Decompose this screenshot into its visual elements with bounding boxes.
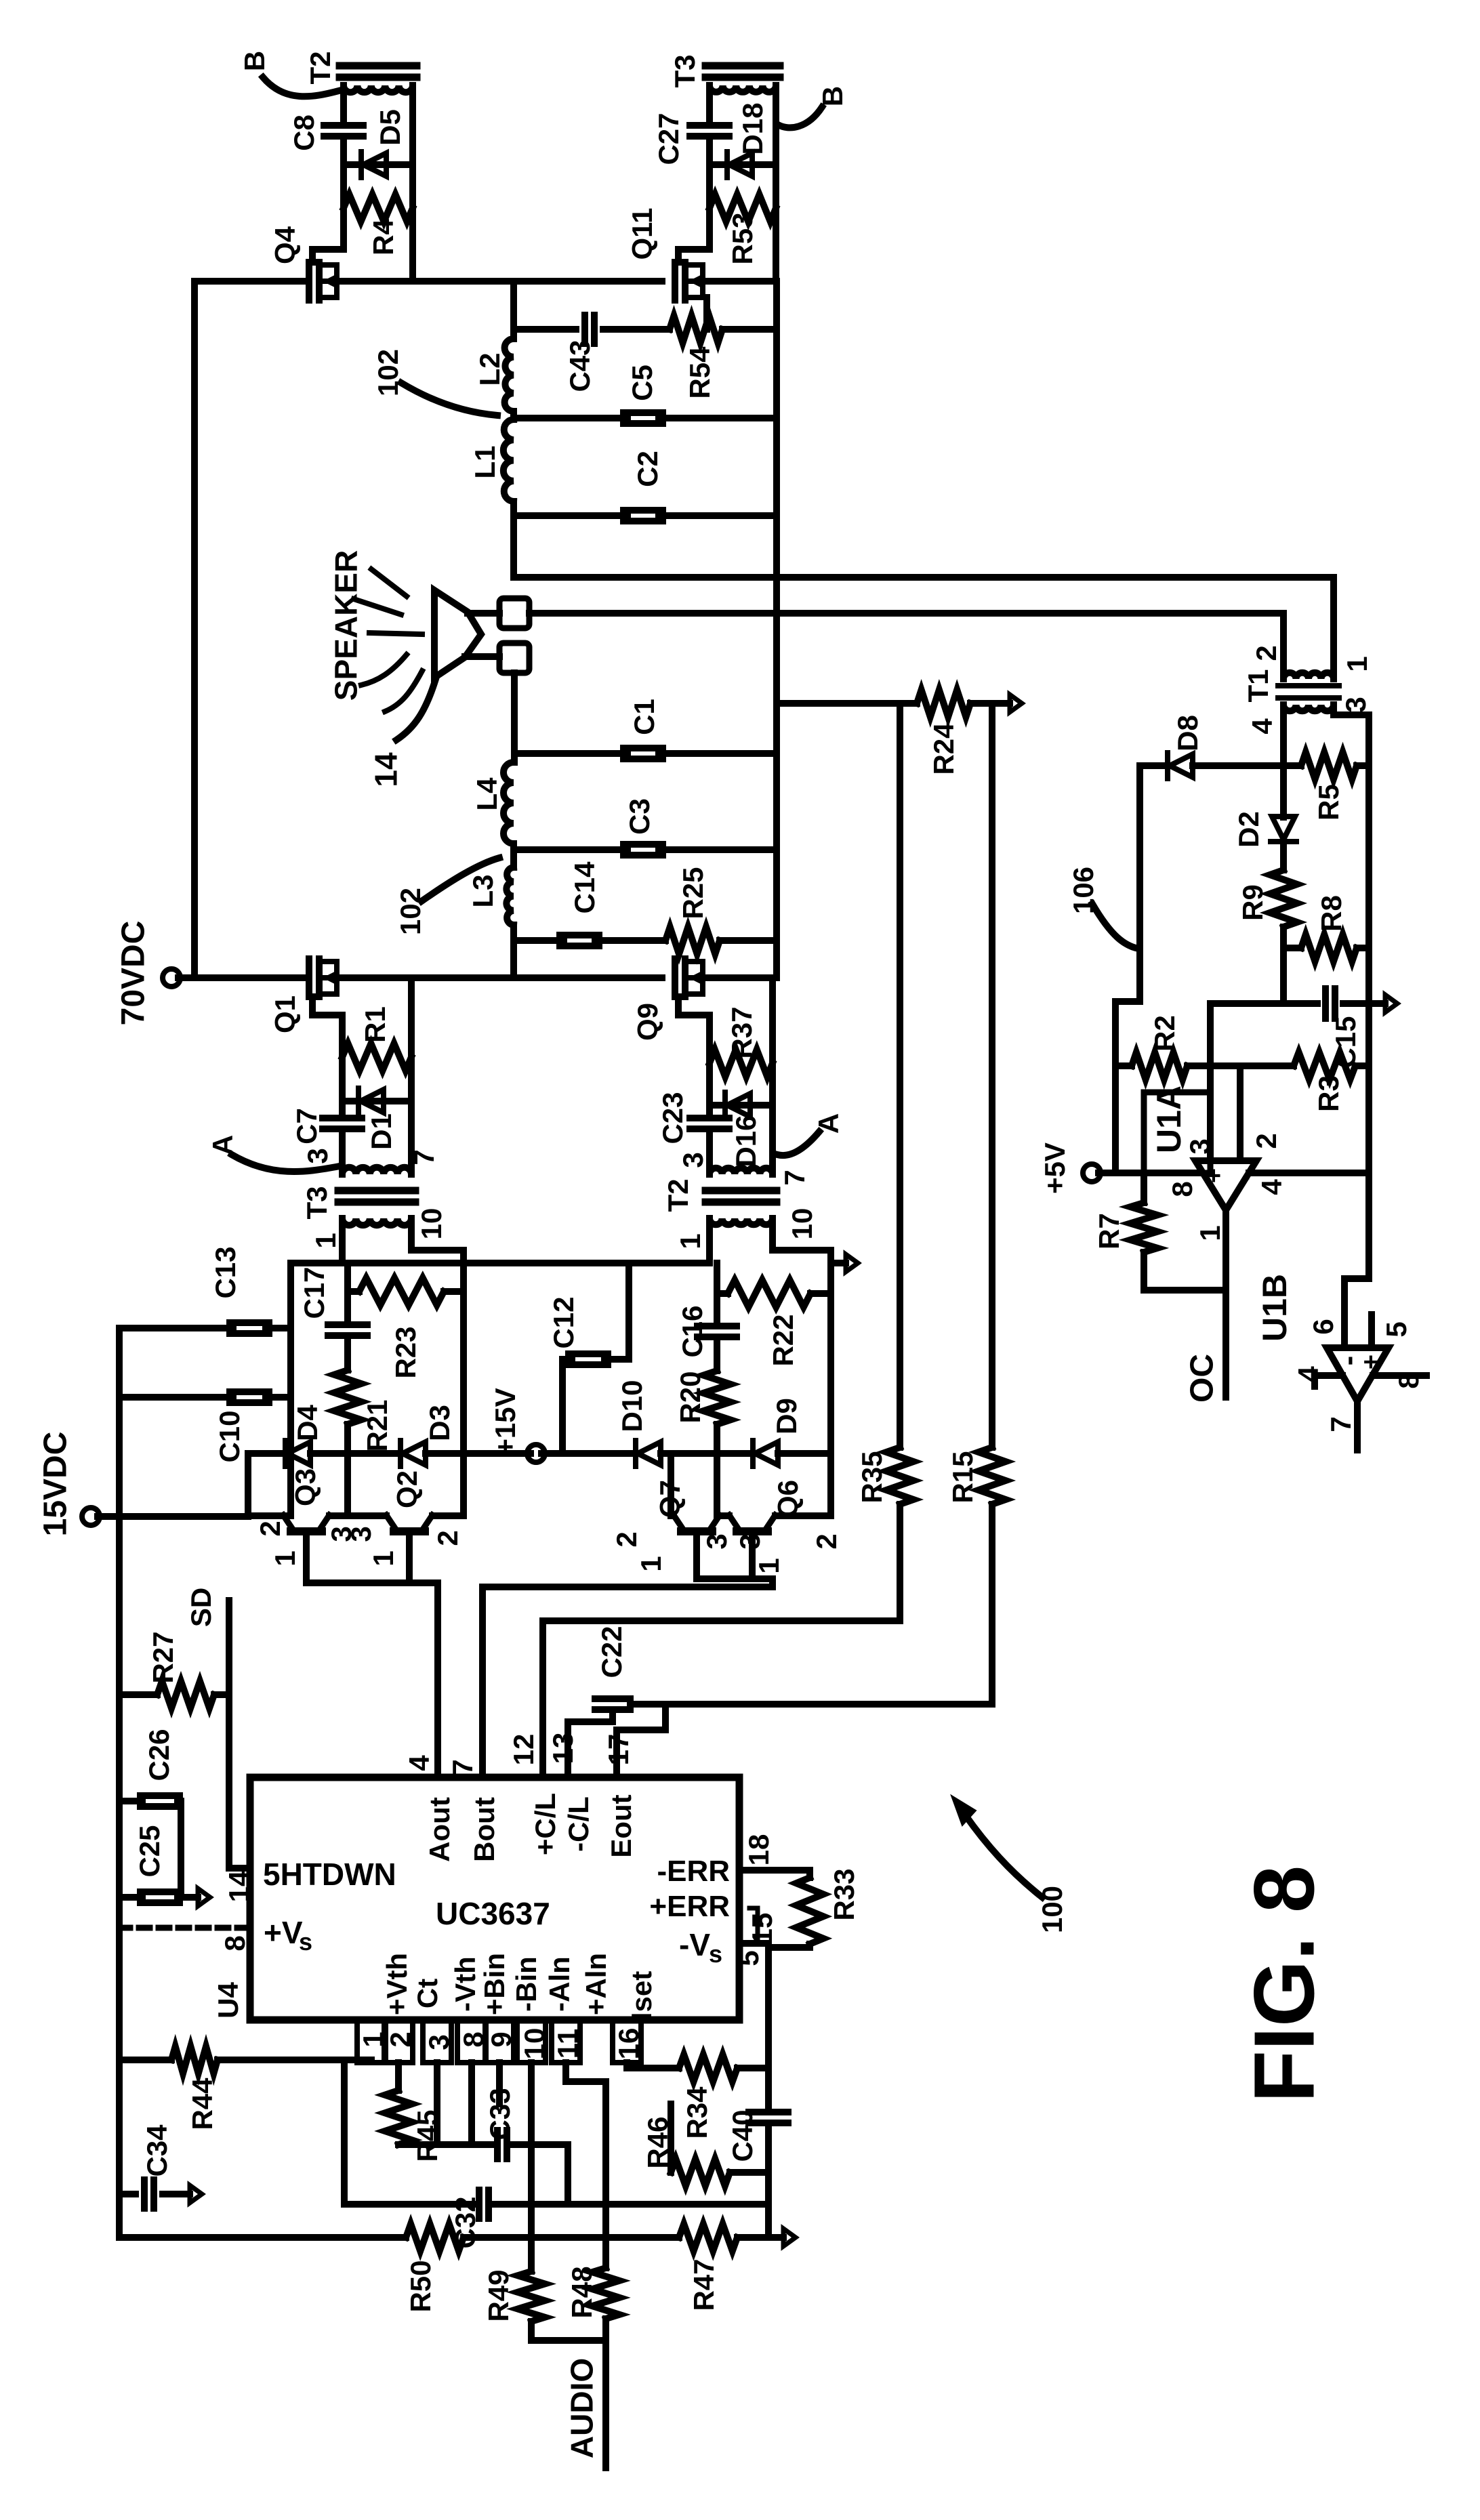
- resistor R1: [342, 1044, 411, 1071]
- wire C43/R54 line: [514, 326, 777, 333]
- U1A box: [1144, 1092, 1210, 1173]
- transistor Q1: [309, 959, 337, 997]
- wire C2 line: [514, 512, 777, 519]
- ground at R24: [995, 695, 1022, 712]
- pin comb: [357, 2020, 641, 2063]
- wire speaker upper terminal: [468, 610, 499, 617]
- pin name Iset: [625, 1971, 657, 2020]
- svg-text:R27: R27: [147, 1631, 179, 1683]
- label R45: [411, 2109, 443, 2162]
- label 102 lower: [394, 888, 426, 935]
- svg-text:R2: R2: [1149, 1015, 1180, 1052]
- capacitor C40: [749, 2112, 788, 2123]
- wire C3 line: [514, 846, 777, 853]
- svg-text:+Bin: +Bin: [478, 1953, 510, 2015]
- speaker wave arcs: [361, 655, 422, 711]
- resistor R45: [385, 2090, 412, 2145]
- svg-text:C26: C26: [143, 1729, 175, 1781]
- svg-text:T3: T3: [669, 54, 701, 87]
- label 5HTDWN: [263, 1857, 396, 1892]
- svg-text:R53: R53: [726, 212, 758, 264]
- label D9: [770, 1398, 802, 1434]
- label 2: [254, 1521, 286, 1536]
- svg-text:Aout: Aout: [424, 1797, 455, 1862]
- svg-text:R46: R46: [642, 2116, 674, 2168]
- label C33: [484, 2088, 516, 2140]
- svg-text:1: 1: [674, 1233, 706, 1249]
- resistor R48: [592, 2237, 619, 2340]
- svg-text:C3: C3: [623, 798, 655, 835]
- label T3 pin 3: [302, 1148, 333, 1163]
- wire C1 line: [514, 750, 777, 757]
- svg-text:C10: C10: [213, 1410, 245, 1462]
- label L4: [471, 777, 503, 811]
- svg-text:R34: R34: [681, 2086, 713, 2139]
- label C23: [657, 1092, 688, 1144]
- wire Q7 collector: [671, 1453, 674, 1516]
- IC U4 box: [250, 1777, 739, 2020]
- label C25: [133, 1825, 165, 1877]
- resistor R49: [518, 2237, 545, 2340]
- resistor R2: [1132, 1052, 1187, 1079]
- label C1: [628, 699, 660, 735]
- pin label 12: [508, 1734, 539, 1766]
- label C40: [726, 2109, 758, 2162]
- label R24: [928, 722, 960, 775]
- svg-text:6: 6: [1307, 1319, 1339, 1334]
- capacitor C33 line: [398, 2130, 568, 2204]
- svg-text:-Bin: -Bin: [510, 1956, 542, 2012]
- svg-text:R25: R25: [677, 867, 709, 919]
- wire bus tap to L2: [510, 281, 517, 339]
- label R1: [359, 1006, 391, 1043]
- pin name -Vth: [449, 1956, 481, 2012]
- label OC: [1184, 1354, 1220, 1403]
- wire: [1280, 840, 1287, 870]
- svg-text:15: 15: [746, 1913, 778, 1945]
- label pin 2: [1250, 645, 1282, 661]
- svg-text:UC3637: UC3637: [436, 1896, 550, 1931]
- pin label 13: [547, 1733, 579, 1764]
- svg-text:C8: C8: [288, 115, 320, 151]
- svg-text:Q2: Q2: [391, 1470, 423, 1508]
- label 1: [635, 1556, 667, 1571]
- svg-text:D3: D3: [424, 1405, 455, 1441]
- wire R24 line: [777, 700, 995, 707]
- label pin 4: [1292, 1366, 1324, 1382]
- leader 102 lower: [422, 858, 499, 901]
- svg-text:L1: L1: [469, 445, 501, 478]
- label Q7: [654, 1480, 686, 1518]
- svg-text:2: 2: [611, 1531, 642, 1547]
- svg-text:T1: T1: [1242, 669, 1274, 702]
- diode D3: [400, 1441, 426, 1466]
- wire Q6 right: [775, 1512, 831, 1519]
- svg-text:102: 102: [372, 349, 404, 396]
- svg-text:Ct: Ct: [411, 1979, 443, 2008]
- label A left: [207, 1135, 239, 1155]
- svg-text:+ERR: +ERR: [649, 1890, 730, 1923]
- svg-text:C5: C5: [626, 365, 658, 401]
- svg-text:s: s: [709, 1940, 722, 1968]
- label C26: [143, 1729, 175, 1781]
- svg-text:D9: D9: [770, 1398, 802, 1434]
- label 14: [369, 752, 404, 787]
- svg-text:SPEAKER: SPEAKER: [329, 550, 364, 701]
- svg-text:R47: R47: [688, 2258, 720, 2311]
- svg-text:U4: U4: [212, 1982, 244, 2019]
- wire R35 hang: [897, 703, 903, 1447]
- wire Q2 right: [432, 1512, 464, 1519]
- resistor R25: [665, 927, 720, 954]
- leader 102 upper: [401, 383, 497, 415]
- resistor R22: [717, 1280, 831, 1307]
- svg-text:2: 2: [432, 1530, 464, 1546]
- svg-text:14: 14: [369, 752, 404, 787]
- svg-text:Q6: Q6: [772, 1480, 804, 1518]
- wire AUDIO lead: [602, 2340, 609, 2468]
- svg-text:-ERR: -ERR: [657, 1855, 730, 1888]
- label pin 1: [1194, 1225, 1226, 1241]
- diode D10: [636, 1441, 661, 1466]
- label R20: [674, 1371, 706, 1423]
- label pin 4: [1256, 1179, 1288, 1195]
- label B: [817, 86, 848, 106]
- label C16: [676, 1305, 708, 1357]
- leader 100 arrow: [951, 1796, 1042, 1897]
- wire U1B pin8 stub: [1373, 1372, 1426, 1379]
- label +5V: [1039, 1142, 1071, 1194]
- U1B minus: [1332, 1356, 1365, 1366]
- svg-text:+V: +V: [264, 1915, 303, 1950]
- svg-text:Q7: Q7: [654, 1480, 686, 1518]
- label D18: [737, 102, 768, 154]
- resistor R34 line: [627, 2054, 768, 2082]
- wire pin4 U1A: [1249, 1170, 1369, 1176]
- label L2: [474, 352, 506, 386]
- wire +15V rung left: [248, 1450, 531, 1457]
- pin name Aout: [424, 1797, 455, 1862]
- capacitor C23: [690, 1105, 729, 1174]
- resistor R15: [979, 1447, 1006, 1504]
- pin name Ct: [411, 1979, 443, 2008]
- svg-text:3: 3: [1184, 1138, 1216, 1154]
- pin number 3: [423, 2034, 455, 2050]
- wire pin17 jog: [617, 1704, 665, 1777]
- transformer T2 secondary winding: [340, 66, 417, 165]
- svg-text:4: 4: [1256, 1179, 1288, 1195]
- wire 106 vertical: [1136, 766, 1143, 1001]
- wire SD line: [229, 1600, 250, 1868]
- svg-text:OC: OC: [1184, 1354, 1220, 1403]
- svg-text:8: 8: [1166, 1181, 1198, 1197]
- wire R15 hang: [989, 703, 995, 1447]
- svg-text:L2: L2: [474, 352, 506, 386]
- label Q3: [289, 1468, 321, 1506]
- label R53: [726, 212, 758, 264]
- wire R35 to +C/L: [543, 1504, 900, 1777]
- wire Q11 source stub: [703, 297, 710, 329]
- wire C5 line: [514, 415, 777, 421]
- ground at C15: [1370, 995, 1397, 1012]
- label pin 8: [1166, 1181, 1198, 1197]
- pin label 4: [403, 1755, 435, 1771]
- inductor L4: [503, 762, 514, 844]
- svg-text:C7: C7: [291, 1108, 323, 1144]
- pin number 1: [357, 2031, 389, 2047]
- svg-text:D16: D16: [730, 1115, 762, 1167]
- pin name Eout: [605, 1794, 637, 1857]
- wire speaker lower terminal: [465, 653, 499, 660]
- wire C26-C25 stub: [178, 1801, 184, 1897]
- diode D8: [1168, 753, 1193, 779]
- capacitor C17: [328, 1325, 367, 1336]
- label D8: [1172, 715, 1204, 751]
- svg-text:R5: R5: [1313, 784, 1344, 821]
- terminal +5V: [1083, 1164, 1201, 1182]
- wire U1B output: [1354, 1401, 1361, 1450]
- svg-text:1: 1: [269, 1550, 301, 1566]
- wire T1-D2 column: [1280, 766, 1287, 817]
- svg-text:R22: R22: [767, 1314, 799, 1366]
- resistor R50: [406, 2224, 464, 2251]
- label R25: [677, 867, 709, 919]
- wire column C16/R20: [714, 1263, 720, 1516]
- label C3: [623, 798, 655, 835]
- label D5: [374, 109, 406, 146]
- op-amp U1B: [1327, 1348, 1389, 1401]
- svg-text:R4: R4: [367, 219, 399, 255]
- svg-text:AUDIO: AUDIO: [564, 2358, 600, 2458]
- label T2: [304, 51, 336, 84]
- pin name +C/L: [529, 1793, 561, 1855]
- svg-text:+Vth: +Vth: [381, 1953, 413, 2015]
- svg-text:Q11: Q11: [626, 207, 658, 260]
- label R34: [681, 2086, 713, 2139]
- label 106: [1067, 867, 1099, 914]
- svg-text:3: 3: [302, 1148, 333, 1163]
- svg-text:13: 13: [547, 1733, 579, 1764]
- label R15: [947, 1451, 979, 1503]
- resistor R20: [703, 1371, 731, 1424]
- label SPEAKER: [329, 550, 364, 701]
- svg-text:1: 1: [310, 1233, 342, 1248]
- pin name +Bin: [478, 1953, 510, 2015]
- resistor R8: [1301, 934, 1357, 962]
- svg-text:3: 3: [701, 1533, 733, 1549]
- wire T2 right lead to drain bus: [409, 208, 416, 281]
- resistor R24: [917, 690, 970, 717]
- capacitor C12: [562, 1263, 629, 1453]
- label pin 1: [674, 1233, 706, 1249]
- svg-text:+: +: [1357, 1355, 1386, 1369]
- svg-text:14: 14: [223, 1870, 255, 1902]
- label -Vs: [679, 1927, 722, 1968]
- transistor Q9: [675, 959, 703, 997]
- label C7: [291, 1108, 323, 1144]
- svg-text:-Vth: -Vth: [449, 1956, 481, 2012]
- svg-text:10: 10: [415, 1208, 447, 1240]
- svg-text:+15V: +15V: [489, 1388, 521, 1455]
- ground at T2 driver: [831, 1254, 858, 1272]
- svg-text:R48: R48: [566, 2266, 598, 2318]
- svg-text:T2: T2: [304, 51, 336, 84]
- ground at R47: [768, 2229, 796, 2246]
- capacitor C22: [568, 1699, 665, 1777]
- svg-text:R37: R37: [726, 1006, 758, 1058]
- svg-text:D18: D18: [737, 102, 768, 154]
- wire Q1 source lead: [408, 978, 415, 1057]
- svg-text:2: 2: [810, 1533, 842, 1549]
- pin label 14: [223, 1870, 255, 1902]
- pin label 17: [602, 1734, 634, 1766]
- wire Q1 gate lead: [312, 997, 342, 1057]
- label L3: [467, 874, 499, 907]
- dashed +Vs wire: [119, 1925, 247, 1931]
- svg-text:R35: R35: [856, 1451, 888, 1503]
- label C10: [213, 1410, 245, 1462]
- label +Vs: [264, 1915, 312, 1956]
- svg-text:U1B: U1B: [1256, 1274, 1294, 1342]
- label SD: [185, 1588, 217, 1627]
- label C22: [596, 1626, 628, 1678]
- label R54: [684, 346, 716, 399]
- leader A left: [232, 1155, 336, 1172]
- label R49: [482, 2269, 514, 2321]
- speaker terminal lower: [499, 643, 529, 673]
- wire +15V rung right: [541, 1450, 831, 1457]
- wire pin10 lead: [528, 2063, 535, 2237]
- node B leader (left): [263, 77, 339, 96]
- terminal 15VDC: [82, 1508, 248, 1525]
- U1A minus: [1229, 1171, 1262, 1181]
- label pin 1: [1341, 656, 1373, 672]
- label T2 pin 3: [677, 1152, 709, 1168]
- svg-text:1: 1: [753, 1558, 785, 1573]
- wire Q3 collector: [248, 1512, 291, 1519]
- wire emitters to pin4: [306, 1533, 438, 1777]
- resistor R5: [1301, 752, 1357, 779]
- wire box right Q2: [460, 1263, 467, 1516]
- svg-text:L4: L4: [471, 777, 503, 811]
- pin label 15: [746, 1913, 778, 1945]
- label R5: [1313, 784, 1344, 821]
- svg-text:4: 4: [1246, 718, 1278, 735]
- label pin 7: [1325, 1416, 1357, 1432]
- svg-text:3: 3: [677, 1152, 709, 1168]
- svg-text:Eout: Eout: [605, 1794, 637, 1857]
- capacitor C16: [697, 1326, 737, 1337]
- label Q9: [632, 1003, 663, 1041]
- svg-text:-Aln: -Aln: [543, 1956, 575, 2012]
- svg-text:C2: C2: [632, 451, 663, 487]
- svg-text:R49: R49: [482, 2269, 514, 2321]
- label T3 pin 7: [408, 1149, 440, 1165]
- label pin 8: [1393, 1373, 1424, 1388]
- label pin 3: [1184, 1138, 1216, 1154]
- wire D8/R5 line: [1140, 762, 1369, 769]
- wire R49/R48 join: [531, 2337, 606, 2344]
- inductor L2: [505, 339, 514, 411]
- wire 15VDC vertical: [245, 1453, 251, 1516]
- leader 14: [396, 679, 436, 740]
- label T1: [1242, 669, 1274, 702]
- diode D2: [1271, 817, 1296, 842]
- capacitor C32 line: [344, 2190, 768, 2218]
- label 3b: [345, 1526, 377, 1542]
- svg-text:FIG. 8: FIG. 8: [1236, 1865, 1332, 2103]
- pin number 16: [613, 2028, 644, 2060]
- label C8: [288, 115, 320, 151]
- wire pin16 lead: [623, 2063, 630, 2068]
- svg-text:C34: C34: [141, 2124, 173, 2177]
- capacitor C14: [560, 935, 599, 946]
- wire T2 primary right lead: [773, 1218, 831, 1263]
- pin label 18: [743, 1834, 775, 1866]
- wire: [769, 1105, 776, 1174]
- svg-text:R44: R44: [186, 2078, 218, 2130]
- label +15V: [489, 1388, 521, 1455]
- svg-text:C17: C17: [298, 1266, 330, 1319]
- svg-text:D8: D8: [1172, 715, 1204, 751]
- wire R8 line: [1283, 945, 1369, 951]
- resistor R35: [886, 1447, 913, 1504]
- wire 106 jog to +5V: [1115, 1001, 1140, 1173]
- diode D16: [710, 1092, 773, 1118]
- label 2: [432, 1530, 464, 1546]
- transistor Q4: [309, 262, 337, 300]
- svg-text:+5V: +5V: [1039, 1142, 1071, 1194]
- wire U1B pin6: [1344, 1279, 1369, 1348]
- resistor R53: [710, 194, 776, 222]
- label 100: [1036, 1886, 1068, 1933]
- svg-text:Q1: Q1: [269, 995, 301, 1033]
- svg-text:7: 7: [447, 1759, 478, 1775]
- wire: [710, 165, 776, 208]
- svg-text:70VDC: 70VDC: [115, 921, 151, 1026]
- label pin 1: [310, 1233, 342, 1248]
- inductor L1: [503, 411, 514, 501]
- pin number 8: [457, 2031, 489, 2047]
- label C17: [298, 1266, 330, 1319]
- label R8: [1315, 895, 1347, 932]
- capacitor C26: [119, 1796, 181, 1806]
- wire: [342, 1057, 411, 1101]
- resistor R4: [344, 194, 413, 222]
- capacitor C15: [1325, 989, 1335, 1018]
- svg-text:8: 8: [219, 1935, 251, 1951]
- wire T1 pin3 lead: [1334, 705, 1369, 766]
- label D2: [1233, 811, 1265, 848]
- label D16: [730, 1115, 762, 1167]
- svg-text:L3: L3: [467, 874, 499, 907]
- label pin 3: [1340, 697, 1372, 712]
- label T3 driver: [301, 1186, 333, 1219]
- capacitor C1: [623, 748, 663, 759]
- svg-text:2: 2: [1250, 1133, 1282, 1149]
- label 2: [611, 1531, 642, 1547]
- label C15: [1330, 1016, 1361, 1068]
- label pin 10: [415, 1208, 447, 1240]
- svg-text:4: 4: [403, 1755, 435, 1771]
- label 1: [269, 1550, 301, 1566]
- svg-text:D10: D10: [616, 1380, 648, 1432]
- svg-text:+Aln: +Aln: [580, 1953, 612, 2015]
- leader 106: [1092, 904, 1138, 949]
- svg-text:5: 5: [733, 1950, 764, 1966]
- wire U1A output: [1222, 1210, 1229, 1397]
- svg-text:+C/L: +C/L: [529, 1793, 561, 1855]
